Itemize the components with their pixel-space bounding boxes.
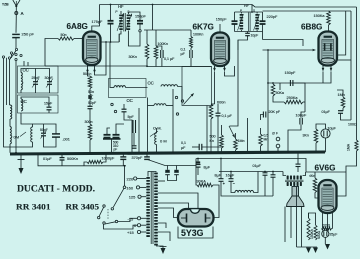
svg-text:6V6G: 6V6G <box>315 164 336 173</box>
svg-text:100Kn: 100Kn <box>193 33 203 37</box>
wire tap220 <box>137 178 147 180</box>
wire right to 6V6 grid <box>346 151 357 172</box>
box wave-band 1 <box>18 66 59 93</box>
wire choke l <box>231 181 235 192</box>
wire cap to switch <box>15 38 17 49</box>
wire choke r <box>254 172 259 193</box>
wire 156 down <box>155 59 157 67</box>
electrolytic 8uF d <box>219 178 224 180</box>
tube 6K7G <box>211 33 229 67</box>
svg-text:220pF: 220pF <box>267 15 278 19</box>
wire sw to box1 a <box>23 61 25 66</box>
junction 211 bus <box>210 152 212 154</box>
wire 10uF bot <box>325 138 327 152</box>
wire h y30 <box>144 29 162 31</box>
svg-text:370pF: 370pF <box>132 156 143 160</box>
wire 16uf top <box>230 172 232 179</box>
capacitor 100pF <box>299 118 301 125</box>
electrolytic 8uF b <box>174 171 179 173</box>
wire IFT2 prim top <box>240 12 242 14</box>
junction det <box>267 49 269 51</box>
wire L5 bottom <box>10 142 33 147</box>
wire diode wire <box>263 40 304 47</box>
wire 30KA down <box>196 159 197 186</box>
resistor 300n <box>88 124 92 140</box>
wire long y66 <box>45 65 147 67</box>
svg-text:50pF: 50pF <box>88 101 97 105</box>
wire 100pF top <box>301 112 305 118</box>
wire mains up <box>124 166 126 186</box>
wire left vertical 3 <box>15 61 17 153</box>
svg-text:175pF: 175pF <box>92 20 103 24</box>
wire 600n top <box>211 103 215 105</box>
resistor 250Ka <box>284 100 303 104</box>
svg-text:P: P <box>115 10 117 14</box>
wire xfmr sec tap4 <box>158 232 170 241</box>
wire IFT1 prim lead dn <box>118 34 120 42</box>
wire 6K7G pin2 <box>225 66 235 76</box>
wire coil M4 <box>156 145 158 153</box>
wire xfmr sec tap2 <box>158 203 189 210</box>
svg-text:250Ka: 250Ka <box>287 96 299 100</box>
ground left <box>20 155 22 168</box>
wire 162 down <box>161 58 163 67</box>
wire M3 l <box>148 105 155 107</box>
speaker output transformer <box>287 176 289 180</box>
wire 8ufc top <box>197 159 199 162</box>
antenna <box>13 0 16 6</box>
wire box1 c1dn <box>35 84 37 93</box>
wire spk 2 <box>303 172 306 176</box>
coil M2 right <box>161 85 178 87</box>
wire 175pF bot <box>110 24 112 43</box>
wire 5pF up <box>123 104 125 109</box>
wire 6V6 pin a <box>322 213 324 229</box>
wire 250Ka right <box>303 101 305 103</box>
wire 01e bot <box>61 160 63 166</box>
svg-text:OC: OC <box>127 98 133 103</box>
capacitor 01uF g <box>271 174 276 176</box>
wire left vertical 2 <box>9 59 11 105</box>
wire osc box down <box>206 106 208 153</box>
resistor 500Kn b <box>220 135 224 148</box>
svg-text:20K pF: 20K pF <box>269 110 281 114</box>
svg-text:150Ka: 150Ka <box>314 14 326 18</box>
wire 50n right <box>74 38 83 40</box>
svg-text:6K7G: 6K7G <box>193 22 214 31</box>
svg-text:250 pF: 250 pF <box>22 32 35 37</box>
wire box2 top <box>21 97 49 107</box>
svg-text:01µF: 01µF <box>43 157 52 161</box>
wire IFT1 prim bottom <box>119 31 121 43</box>
wire 500Kn row l <box>84 162 87 166</box>
wire left vertical 1 <box>4 58 11 147</box>
junction y42 <box>105 41 107 43</box>
phono terminals <box>276 137 280 141</box>
resistor 50Kn det <box>271 84 275 96</box>
wire xfmr top <box>148 172 156 177</box>
wire L5 top <box>33 124 57 134</box>
capacitor 370pF <box>144 156 150 158</box>
wire 370pF top <box>146 153 148 157</box>
wire 150pFb top <box>234 12 236 21</box>
electrolytic 10uF <box>321 129 330 138</box>
wire 4Kn top <box>314 172 316 178</box>
wire 250Ka left <box>273 96 284 102</box>
capacitor 01uF mid <box>198 144 200 150</box>
svg-text:0,1 µF: 0,1 µF <box>164 57 175 61</box>
wire 6B8G pin drop b <box>323 72 331 84</box>
pin arrows 6K7G <box>214 66 216 70</box>
coil M3 <box>154 104 166 106</box>
wire box2 bottom <box>48 110 50 113</box>
wire 1Mn top <box>337 90 343 97</box>
node A terminal <box>15 12 18 15</box>
resistor 500Kn row <box>87 160 103 163</box>
capacitor 01uF d <box>338 110 343 112</box>
wire 6V6 grid row <box>306 171 346 173</box>
coil L4 OM <box>10 127 12 145</box>
electrolytic 16uF <box>229 178 234 180</box>
capacitor 150pF b <box>232 20 238 22</box>
junction 173 bus <box>172 152 174 154</box>
padder capacitor 500pF <box>104 134 111 136</box>
svg-text:6B8G: 6B8G <box>301 23 322 32</box>
wire 6K7G cath down <box>214 72 216 105</box>
wire IFT2 top <box>235 11 263 13</box>
wire elec bot <box>324 237 326 244</box>
wire sec bottom <box>128 31 140 47</box>
IFT2 core <box>248 13 250 32</box>
terminal 125 <box>138 195 141 198</box>
mains switch upper <box>123 186 126 189</box>
capacitor 5pF <box>122 108 127 110</box>
svg-text:25µF: 25µF <box>330 233 338 237</box>
wire xfmr sec tap1 <box>158 180 165 182</box>
wire 191 down <box>190 58 192 67</box>
oscillator arrow <box>184 95 193 105</box>
svg-text:150pF: 150pF <box>135 15 146 19</box>
ground g3 <box>325 244 330 250</box>
wire coil M4 top <box>156 128 158 133</box>
wire right drop c <box>337 11 346 55</box>
resistor 1Mn <box>341 97 345 108</box>
wire 01c top <box>217 104 219 113</box>
padder bottom bar <box>103 138 121 140</box>
wire capg b <box>272 177 274 196</box>
wire 100KnB top <box>190 30 192 37</box>
svg-text:100Kn: 100Kn <box>158 42 168 46</box>
wire 150pFa bottom <box>139 24 141 30</box>
svg-text:TZB: TZB <box>2 3 9 7</box>
wire 500KnB <box>221 125 223 135</box>
wire xfmr sec tap3 <box>158 208 178 218</box>
wire diagonal to rect <box>147 160 196 166</box>
svg-text:Mn: Mn <box>264 138 269 142</box>
ground xfmr <box>161 248 166 254</box>
wire 20KpF l <box>261 115 264 121</box>
svg-text:6A8G: 6A8G <box>67 22 88 31</box>
svg-text:160: 160 <box>126 185 133 190</box>
wire L4 to bus <box>9 144 11 153</box>
svg-text:30pF: 30pF <box>45 76 54 80</box>
svg-text:600n: 600n <box>217 101 225 105</box>
pot arrow <box>229 126 233 135</box>
wire 220pF bot <box>262 24 264 40</box>
wire h y30 b <box>162 29 191 31</box>
svg-text:50n: 50n <box>61 33 67 37</box>
wire 05Mn <box>260 128 262 134</box>
xfmr secondary winding <box>154 173 158 175</box>
capacitor box cap <box>132 120 134 133</box>
ground g1 <box>306 248 311 254</box>
wire 400 up <box>309 213 316 225</box>
wire right top drop a <box>356 7 358 140</box>
wire top bus HF <box>100 4 253 6</box>
wire left vertical 4 <box>6 58 8 105</box>
resistor 50n grid <box>58 37 74 40</box>
wire grid 6B8G arrow <box>263 49 313 51</box>
resistor 150Kn vert <box>307 218 310 240</box>
speaker cone <box>292 187 299 197</box>
wire 3Kn bot <box>315 143 317 152</box>
svg-text:150pF: 150pF <box>285 71 296 75</box>
tube 6B8G <box>319 32 338 66</box>
switch antenna <box>15 48 17 50</box>
wire pot bot <box>235 150 237 152</box>
IFT2 arrows <box>238 14 244 31</box>
wire right drop b <box>350 11 352 120</box>
svg-text:0 M: 0 M <box>160 139 167 144</box>
resistor 1Mn pot <box>234 139 238 150</box>
wire gnd row <box>297 246 318 248</box>
switch contacts cluster <box>10 52 12 54</box>
terminal 0 <box>137 224 140 227</box>
capacitor 150pF a <box>137 20 143 22</box>
wire spk down b <box>290 207 292 239</box>
svg-text:220: 220 <box>127 177 134 182</box>
wire xfmr sec bot <box>156 246 163 248</box>
xfmr core <box>150 172 152 245</box>
wire pot top <box>235 133 237 139</box>
wire 6V6 pin c <box>332 213 334 229</box>
svg-text:pF: pF <box>114 147 118 151</box>
wire capf <box>264 172 266 173</box>
wire 50Kn det top <box>272 83 274 84</box>
resistor 100Kn b <box>190 37 193 49</box>
electrolytic 8uF c <box>196 164 201 166</box>
wire right top 1 <box>252 5 357 8</box>
coil L1 OC <box>21 73 23 91</box>
terminal +15 <box>137 230 140 233</box>
wire 1Mn bot <box>341 108 344 111</box>
capacitor 01uF c <box>216 112 221 114</box>
svg-text:15pF: 15pF <box>44 102 53 106</box>
wire 300n to bus <box>89 140 91 153</box>
svg-text:220Ω: 220Ω <box>322 224 331 228</box>
resistor 30KA <box>197 183 213 187</box>
resistor 3Kn <box>314 129 318 143</box>
capacitor 01uF a <box>160 50 162 58</box>
wire phono down <box>277 148 279 152</box>
svg-text:1000pF: 1000pF <box>102 156 116 160</box>
svg-text:8µF: 8µF <box>204 166 211 170</box>
resistor 50Kn cathode <box>88 76 92 89</box>
wire spk down a <box>284 207 286 243</box>
svg-text:50Ka: 50Ka <box>276 91 284 95</box>
wire 6V6 pin b <box>327 213 329 231</box>
wire 175pF top <box>110 5 112 21</box>
svg-text:-15: -15 <box>128 216 135 221</box>
tube 5Y3G <box>178 209 214 227</box>
wire 5pF down <box>124 112 132 153</box>
svg-text:Kn: Kn <box>210 139 214 143</box>
wire plate 6A8G <box>101 41 120 43</box>
IFT1 primary winding <box>119 15 123 17</box>
svg-text:RR 3405: RR 3405 <box>66 201 100 211</box>
trimmer 25pF <box>33 81 38 83</box>
tube 6A8G <box>83 32 101 66</box>
coil M1 <box>114 86 126 88</box>
junction 147 y66 <box>146 65 148 67</box>
wire spk 1 <box>283 172 286 176</box>
wire tap160 <box>140 186 147 188</box>
svg-text:10µF: 10µF <box>328 127 337 131</box>
wire L3 down <box>9 119 11 127</box>
wire v a <box>296 187 298 248</box>
wire sw to box1 b <box>27 62 29 66</box>
wire padder up a <box>107 128 110 135</box>
capacitor 50pF <box>88 105 93 107</box>
wire IFT2 sec top <box>256 12 258 14</box>
wire box1 top <box>21 69 50 82</box>
wire 6V6 top right <box>337 172 347 196</box>
svg-text:O.M.: O.M. <box>153 126 162 131</box>
wire 191 up <box>190 48 192 50</box>
wire IFT1 prim leads <box>120 11 122 14</box>
trimmer 30pF <box>47 81 52 83</box>
resistor 30Kn <box>145 44 149 59</box>
coil L2 OC <box>21 99 23 111</box>
box middle <box>109 79 147 98</box>
svg-text:5pF: 5pF <box>128 115 135 119</box>
capacitor 01uF b <box>189 50 191 58</box>
svg-text:500Kn: 500Kn <box>67 157 78 161</box>
wire box1 cap1 lead <box>35 69 37 82</box>
svg-text:10pF: 10pF <box>251 34 259 38</box>
wire box1 bottom <box>20 90 22 93</box>
IFT2 primary winding <box>240 14 244 16</box>
terminal 150pFa <box>139 30 141 32</box>
resistor 600n <box>209 104 213 119</box>
resistor 400 vert <box>314 225 317 240</box>
wire 8ufc bot <box>197 167 199 175</box>
svg-text:HF: HF <box>118 4 124 9</box>
mains switch lower <box>103 205 105 207</box>
svg-text:0M: 0M <box>14 135 20 140</box>
wire 10pF <box>247 32 249 34</box>
svg-text:01µF: 01µF <box>322 110 331 114</box>
wire tap-15 <box>141 217 147 219</box>
capacitor 01uF h <box>296 163 301 165</box>
wire 220n join <box>332 228 333 230</box>
coil M4 OM <box>155 133 157 145</box>
wire mid v2 <box>138 108 140 153</box>
svg-text:125: 125 <box>129 195 136 200</box>
wire coil M1 leads <box>110 87 115 89</box>
coil L5 <box>31 127 33 142</box>
wire 5Y3G right <box>214 190 220 218</box>
wire 1000pF bot <box>122 160 124 166</box>
capacitor 15pF <box>47 106 52 108</box>
capacitor 250pF <box>12 33 20 35</box>
wire 5Y3G route box <box>178 227 213 239</box>
capacitor 150pF det <box>289 80 291 86</box>
wire 1000pF top <box>122 154 124 157</box>
wire pin1 6A8G <box>88 70 91 76</box>
svg-text:400Ω: 400Ω <box>317 230 321 239</box>
box wave-band 2 <box>18 95 59 113</box>
IFT1 core <box>123 13 125 32</box>
wire 01mid r <box>202 146 222 148</box>
wire 150pF det r <box>293 83 305 112</box>
IFT1 secondary winding <box>127 15 131 17</box>
resistor vert right <box>355 140 358 151</box>
wire 162 up <box>156 46 162 50</box>
wire 5Y3G anode b <box>158 193 198 210</box>
IFT2 secondary winding <box>255 14 259 16</box>
wire sw to -15 <box>118 218 138 221</box>
wire shunt row <box>38 154 126 166</box>
wire 6B8G right h <box>337 59 351 61</box>
wire 220pF top <box>262 12 264 21</box>
svg-text:30KA: 30KA <box>197 179 207 183</box>
wire 100pF bot <box>288 125 301 153</box>
svg-text:100Ω: 100Ω <box>348 123 357 127</box>
wire b+ rail <box>196 158 255 160</box>
svg-text:OC: OC <box>148 81 154 86</box>
wire mid v3 <box>172 89 174 153</box>
wire M3 r <box>166 105 173 107</box>
tube 6V6G <box>319 180 337 213</box>
wire 5Y3G anode a <box>158 223 166 228</box>
svg-text:0,1: 0,1 <box>181 141 186 145</box>
wire 30Kn top <box>146 30 148 44</box>
wire 150Ka bot <box>328 25 330 32</box>
svg-text:50Kn: 50Kn <box>83 72 91 76</box>
wire v b <box>301 207 303 248</box>
svg-text:30Kn: 30Kn <box>129 55 137 59</box>
wire caph bot <box>297 167 299 172</box>
wire 8ufd bot <box>221 181 273 196</box>
junction bus 90 <box>89 152 91 154</box>
capacitor 01uF f <box>263 172 268 174</box>
svg-text:300n: 300n <box>85 120 93 124</box>
wire M2 right <box>178 87 183 100</box>
wire box2 to coil <box>9 104 12 106</box>
choke coil <box>235 190 254 192</box>
padder capacitor 310pF <box>113 134 120 136</box>
wire 01e leads <box>61 154 63 158</box>
wire det left <box>267 50 269 152</box>
terminal 160 <box>136 186 139 189</box>
svg-text:HF: HF <box>244 4 250 8</box>
terminal 220 <box>134 177 137 180</box>
wire 150pFb bot <box>234 24 236 32</box>
resistor 220n <box>322 227 332 230</box>
svg-text:1Mn: 1Mn <box>238 139 245 143</box>
wire 01mid l <box>192 146 199 148</box>
